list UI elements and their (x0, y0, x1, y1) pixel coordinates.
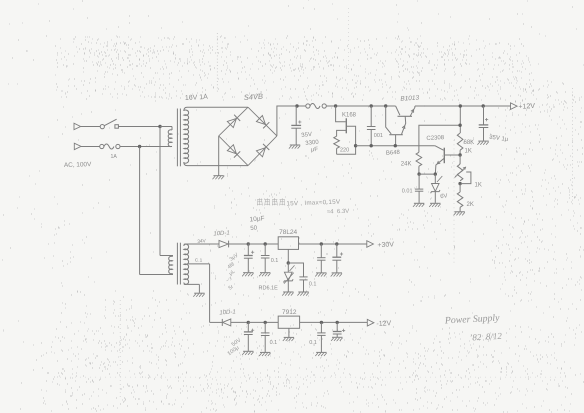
svg-text:AC, 100V: AC, 100V (64, 161, 92, 169)
ground (297, 292, 308, 296)
diode D2 10D-1 (219, 240, 248, 247)
ground (331, 273, 342, 277)
label 68K (464, 140, 475, 146)
capacitor C10 100uF 50V (244, 322, 254, 351)
label B648 (386, 150, 401, 157)
node divider mid1 (458, 124, 461, 127)
node rail C (384, 104, 387, 107)
capacitor C11 0.1 (261, 322, 270, 352)
ground (477, 141, 488, 145)
label 0.1 (309, 340, 317, 346)
node N4 (336, 321, 339, 324)
capacitor C4 1uF 35V (479, 104, 489, 141)
regulator U1 78L24 (278, 237, 298, 250)
label 1K (475, 183, 482, 189)
svg-text:78L24: 78L24 (279, 229, 297, 236)
ground (193, 293, 204, 297)
node N3 (320, 321, 323, 324)
svg-text:68K: 68K (464, 140, 475, 146)
label 7912 (282, 309, 297, 316)
label 6V (440, 193, 448, 200)
capacitor C3 0.01 (415, 174, 423, 203)
label C2308 (426, 135, 445, 142)
node divider top (459, 104, 462, 107)
wire (300, 321, 368, 323)
node P4 (335, 242, 338, 245)
label tilted 5 (228, 284, 236, 292)
annotation 6.3V (327, 209, 350, 216)
label B1013 (400, 94, 420, 102)
bridge rectifier D1 S4VB (219, 107, 277, 165)
ground (259, 352, 270, 356)
label 50 (250, 225, 258, 232)
svg-text:1K: 1K (465, 148, 472, 154)
node +30V (367, 241, 374, 248)
wire (248, 321, 278, 323)
wire (287, 249, 289, 263)
resistor R1 220 (334, 136, 356, 154)
label 0.01 (402, 189, 413, 195)
svg-text:0.01: 0.01 (402, 189, 413, 195)
node P2 (264, 242, 267, 245)
wire (81, 126, 101, 128)
svg-text:220: 220 (340, 148, 349, 154)
label 1A (111, 154, 118, 160)
label AC 100V (64, 161, 92, 169)
capacitor C9 electrolytic (332, 244, 343, 273)
label 2K (467, 202, 474, 208)
label 10uF (249, 215, 265, 223)
resistor R2 24K (416, 152, 422, 174)
label 78L24 (279, 229, 297, 236)
label 35V 1uF (489, 135, 509, 144)
ground (289, 145, 300, 149)
label 1K (465, 148, 472, 154)
label C.T (195, 258, 203, 264)
label +30V (377, 241, 394, 249)
node E1 (417, 172, 420, 175)
node -12V (367, 319, 374, 326)
wire (326, 105, 395, 107)
resistor R4 2K (457, 184, 463, 212)
wire (120, 146, 172, 148)
wire (209, 264, 211, 323)
annotation 15V (286, 199, 341, 208)
svg-text:2K: 2K (467, 202, 474, 208)
svg-text:16V 1A: 16V 1A (185, 94, 209, 102)
transistor Q4 C2308 (435, 146, 461, 174)
ground (242, 273, 253, 277)
transistor Q3 B1013 (396, 106, 415, 116)
node switch junction (158, 125, 161, 128)
svg-text:’82 8/12: ’82 8/12 (469, 331, 502, 343)
svg-text:C.1: C.1 (195, 258, 203, 264)
ground (242, 351, 253, 355)
zener diode ZD1 6V (431, 174, 443, 203)
node P3 (320, 242, 323, 245)
label tilted 4 (225, 275, 234, 284)
capacitor C13 electrolytic (333, 322, 345, 337)
svg-text:1K: 1K (475, 183, 482, 189)
capacitor C5 10uF 50V (244, 244, 254, 272)
svg-text:C2308: C2308 (426, 135, 445, 142)
svg-text:B1013: B1013 (400, 94, 420, 102)
node rail B (334, 104, 337, 107)
svg-text:10D-1: 10D-1 (219, 309, 236, 316)
svg-text:0.1: 0.1 (271, 258, 279, 264)
label 35V (301, 132, 312, 139)
label -12V (376, 320, 391, 328)
svg-text:10μF: 10μF (249, 215, 265, 223)
transformer T2 (140, 243, 219, 285)
node N2 (264, 321, 267, 324)
capacitor C8 0.1 (317, 244, 325, 273)
label 0.1 (270, 340, 278, 346)
svg-text:6V: 6V (440, 193, 448, 200)
label 10D-1 (219, 309, 236, 316)
annotation kanji (257, 198, 285, 205)
ground (331, 337, 342, 341)
capacitor C6 0.1 (261, 244, 270, 272)
label tilted 3 (228, 269, 236, 277)
regulator U2 7912 (278, 316, 299, 328)
ground (454, 212, 465, 216)
capacitor C7 0.1 (288, 263, 307, 292)
wire (218, 136, 220, 176)
node U1 gnd (287, 261, 290, 264)
label 220 (340, 148, 349, 154)
node lower rail A (354, 144, 357, 147)
ground (315, 273, 326, 277)
svg-text:7912: 7912 (282, 309, 297, 316)
svg-text:≈4 6.3V: ≈4 6.3V (327, 209, 350, 216)
capacitor C1 3300uF 35V (291, 106, 301, 145)
svg-text:1A: 1A (111, 154, 118, 160)
node lower rail C (394, 144, 397, 147)
svg-text:0.1: 0.1 (309, 281, 317, 287)
node divider mid2 (458, 153, 461, 156)
node E2 (434, 172, 437, 175)
svg-text:+12V: +12V (518, 103, 535, 111)
svg-text:μF: μF (311, 147, 319, 154)
svg-text:RD6.1E: RD6.1E (259, 285, 279, 291)
capacitor C12 0.1 (317, 322, 325, 352)
transformer T1 16V 1A (160, 107, 248, 166)
wire (419, 173, 435, 175)
wire (415, 105, 511, 107)
wire (81, 146, 100, 148)
label RD6.1E (259, 285, 279, 291)
svg-text:0.1: 0.1 (309, 340, 317, 346)
subtitle date (469, 331, 502, 343)
fuse F1 1A (100, 144, 120, 149)
fuse F2 (306, 103, 327, 108)
svg-text:24K: 24K (401, 161, 412, 167)
connector J1 (74, 123, 81, 130)
switch S1 (100, 119, 118, 129)
node lower rail B (370, 144, 373, 147)
label 0.1 (271, 258, 279, 264)
wire (248, 243, 278, 245)
label tilted 2 (227, 261, 236, 270)
ground (213, 176, 224, 180)
svg-text:50: 50 (250, 225, 258, 232)
capacitor C2 0.01 (367, 104, 376, 145)
node rail A (295, 104, 298, 107)
wire (139, 147, 141, 275)
diode D3 10D-1 (210, 319, 249, 326)
wire (288, 328, 290, 337)
wire (277, 106, 306, 136)
ground (315, 352, 326, 356)
wire (118, 126, 160, 128)
resistor R3 68K (457, 133, 463, 155)
svg-text:0.1: 0.1 (270, 340, 278, 346)
label 34V (197, 238, 207, 245)
node N1 (247, 321, 250, 324)
label 50V tilted (229, 252, 240, 263)
label +12V (518, 103, 535, 111)
label 0.1 (309, 281, 317, 287)
ground (259, 273, 270, 277)
svg-text:35V: 35V (301, 132, 312, 139)
node divider mid3 (458, 182, 461, 185)
potentiometer VR1 1K (455, 155, 471, 184)
label S4VB (244, 92, 264, 102)
wire (159, 127, 161, 256)
wire (356, 145, 435, 147)
label uF (311, 147, 319, 154)
zener diode ZD2 RD6.1E (284, 263, 295, 292)
ground (283, 337, 294, 341)
title Power Supply (444, 313, 501, 327)
label 001 (374, 133, 383, 139)
wire (198, 284, 200, 292)
label 3300 (305, 140, 320, 147)
wire (459, 106, 461, 133)
label 100u tilted (227, 345, 241, 357)
svg-text:-12V: -12V (376, 320, 391, 328)
ground (429, 203, 440, 207)
svg-text:001: 001 (374, 133, 383, 139)
svg-text:10D-1: 10D-1 (213, 230, 230, 237)
ground (282, 292, 293, 296)
wire (419, 125, 460, 152)
wire (299, 243, 367, 245)
connector J2 (74, 143, 81, 150)
node P1 (247, 242, 250, 245)
node fuse junction (138, 145, 141, 148)
svg-text:+30V: +30V (377, 241, 394, 249)
svg-text:S4VB: S4VB (244, 92, 264, 102)
label 50V tilted (231, 337, 243, 348)
label 24K (401, 161, 412, 167)
svg-text:B648: B648 (386, 150, 401, 157)
svg-text:34V: 34V (197, 238, 207, 245)
label 10D-1 (213, 230, 230, 237)
transistor Q2 B648 (386, 106, 406, 146)
node +12V (511, 103, 518, 110)
transistor Q1 K168 (336, 106, 356, 146)
label 16V 1A (185, 94, 209, 102)
ground (413, 203, 424, 207)
svg-text:K168: K168 (342, 113, 357, 119)
label K168 (342, 113, 357, 119)
